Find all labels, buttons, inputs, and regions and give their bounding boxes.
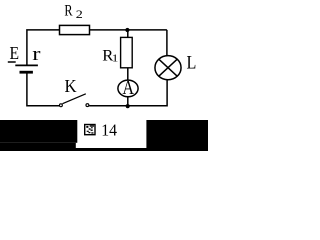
wire R2 to top-right corner — [90, 29, 167, 31]
wire ammeter to bottom junction — [127, 97, 129, 106]
label E underline — [8, 61, 16, 63]
switch K right terminal — [86, 104, 89, 107]
svg-text:K: K — [65, 75, 77, 96]
ammeter A — [118, 80, 138, 97]
wire lamp to bottom-right corner — [128, 80, 167, 106]
svg-text:2: 2 — [76, 8, 83, 20]
svg-text:1: 1 — [112, 52, 119, 64]
caption glyph 图 drawn manually — [85, 125, 95, 135]
node bottom junction — [126, 104, 130, 108]
switch K left terminal — [59, 104, 62, 107]
svg-text:r: r — [32, 42, 41, 64]
lamp L — [155, 56, 181, 80]
battery plate short thick — [20, 71, 33, 74]
svg-text:L: L — [187, 51, 197, 73]
wire top-right corner down to lamp — [166, 30, 168, 56]
svg-text:14: 14 — [101, 120, 117, 140]
resistor R1 — [121, 37, 133, 67]
svg-text:R: R — [64, 3, 73, 20]
wire junction to R1 — [127, 30, 129, 37]
wire top-left corner to R2 — [27, 30, 59, 65]
wire battery to bottom-left corner — [27, 72, 60, 106]
svg-text:E: E — [10, 43, 20, 63]
battery plate long (E) — [15, 64, 38, 66]
resistor R2 — [60, 25, 90, 34]
switch K blade — [63, 94, 86, 104]
svg-text:A: A — [122, 76, 134, 98]
node top junction — [125, 28, 129, 32]
wire R1 to ammeter — [127, 68, 129, 80]
redaction black bars — [0, 120, 208, 151]
wire switch to bottom junction — [89, 105, 128, 107]
